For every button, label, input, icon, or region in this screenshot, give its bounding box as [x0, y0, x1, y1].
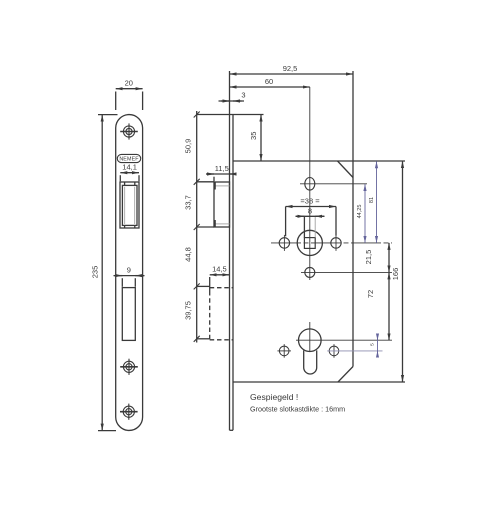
- svg-text:33,7: 33,7: [183, 195, 192, 210]
- svg-text:44,8: 44,8: [183, 247, 192, 262]
- svg-text:14,5: 14,5: [212, 265, 227, 274]
- svg-text:Gespiegeld !: Gespiegeld !: [250, 392, 298, 402]
- svg-text:3: 3: [241, 91, 245, 100]
- svg-text:44,25: 44,25: [357, 205, 363, 219]
- svg-text:50,9: 50,9: [183, 139, 192, 154]
- svg-text:5: 5: [370, 343, 376, 346]
- svg-text:=38 =: =38 =: [300, 196, 320, 205]
- svg-text:39,75: 39,75: [183, 301, 192, 320]
- svg-text:60: 60: [265, 77, 273, 86]
- svg-text:9: 9: [127, 265, 131, 274]
- svg-text:8: 8: [308, 206, 312, 215]
- svg-text:72: 72: [366, 290, 375, 298]
- svg-text:35: 35: [249, 132, 258, 140]
- svg-text:20: 20: [125, 79, 133, 88]
- svg-text:81: 81: [369, 197, 375, 203]
- svg-text:11,5: 11,5: [215, 164, 229, 173]
- svg-text:21,5: 21,5: [364, 250, 373, 265]
- svg-text:Grootste slotkastdikte : 16mm: Grootste slotkastdikte : 16mm: [250, 405, 345, 414]
- svg-text:166: 166: [391, 268, 400, 281]
- svg-text:14,1: 14,1: [122, 163, 137, 172]
- svg-text:92,5: 92,5: [283, 64, 298, 73]
- svg-text:235: 235: [91, 266, 100, 279]
